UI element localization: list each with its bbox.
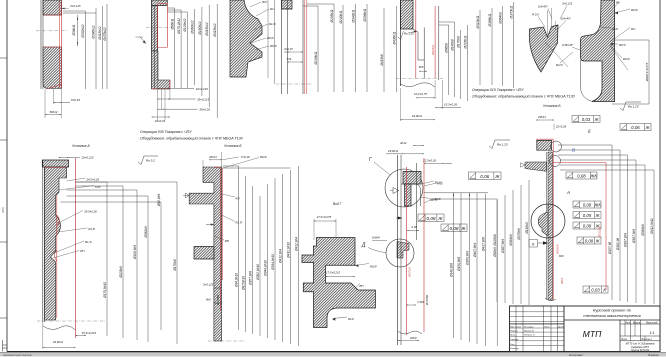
- svg-text:Курсовой проект по: Курсовой проект по: [593, 308, 632, 313]
- svg-text:Ø34,9h10: Ø34,9h10: [234, 273, 238, 288]
- T1 left edge double line: [41, 0, 43, 89]
- svg-text:R0,5¹: R0,5¹: [270, 44, 277, 48]
- svg-text:Разраб.: Разраб.: [510, 330, 518, 332]
- B5 body strip hatched: [548, 152, 553, 300]
- B1 side callouts: [53, 178, 101, 259]
- svg-text:0,06: 0,06: [631, 125, 640, 130]
- application bottom strip: [0, 352, 666, 357]
- svg-text:Утв.: Утв.: [510, 344, 515, 346]
- svg-text:Ø417,9h6: Ø417,9h6: [481, 237, 485, 252]
- svg-text:Ø415h8: Ø415h8: [380, 54, 384, 67]
- svg-text:МГТУ им. Н.Э.Баумана: МГТУ им. Н.Э.Баумана: [626, 341, 655, 345]
- B5 arrow mark: [538, 241, 549, 245]
- svg-text:Ø96h8: Ø96h8: [445, 43, 449, 54]
- B5 top flange hatched: [537, 140, 552, 150]
- B4 body edges: [398, 155, 417, 345]
- svg-text:15,3×0,215: 15,3×0,215: [82, 331, 97, 335]
- B1 left edge double line: [43, 160, 45, 322]
- svg-text:Подп.: Подп.: [544, 325, 550, 328]
- T4 bottom dim 15.3x0.26: [435, 80, 461, 109]
- svg-text:Установ Б: Установ Б: [543, 104, 561, 108]
- svg-text:30×0,26: 30×0,26: [199, 108, 210, 112]
- svg-text:Ø150,9h8: Ø150,9h8: [457, 257, 461, 272]
- svg-text:Ø187,9h9: Ø187,9h9: [623, 233, 627, 248]
- T3b top hatched sliver: [282, 0, 293, 9]
- svg-text:5h9: 5h9: [262, 0, 267, 4]
- B4 dim fan right: [424, 193, 497, 346]
- svg-text:Ø170h8: Ø170h8: [425, 295, 429, 306]
- svg-text:Ø310h11: Ø310h11: [476, 15, 480, 29]
- svg-text:R1,8¹: R1,8¹: [88, 227, 95, 231]
- svg-text:Копировал: Копировал: [569, 353, 583, 357]
- B5 upper band dims: [536, 115, 567, 130]
- svg-text:Ø415h12: Ø415h12: [98, 26, 102, 40]
- svg-text:Ø150,9: Ø150,9: [556, 244, 560, 255]
- T5 chamfer callouts left: [532, 2, 580, 67]
- svg-text:Ø170,9: Ø170,9: [408, 267, 412, 278]
- B5 tol frame top2: [620, 124, 651, 131]
- svg-text:R12¹: R12¹: [348, 317, 354, 321]
- svg-text:А: А: [566, 190, 570, 195]
- svg-text:Ø182,96: Ø182,96: [616, 238, 620, 251]
- T1 dim 3x0.125 top: [62, 4, 81, 9]
- B4 arrow mark: [396, 216, 402, 219]
- svg-text:R1¹: R1¹: [236, 197, 241, 201]
- svg-text:0,96×45°: 0,96×45°: [562, 43, 574, 47]
- T2 body lower hatched block: [152, 51, 170, 89]
- svg-text:0,06: 0,06: [480, 174, 489, 179]
- svg-text:Ø364h9: Ø364h9: [641, 224, 645, 237]
- svg-text:Ø129h12: Ø129h12: [183, 18, 187, 32]
- svg-text:0,6×45°: 0,6×45°: [561, 17, 572, 21]
- svg-text:34h11: 34h11: [209, 155, 217, 159]
- T4 dim fan right: [439, 2, 514, 101]
- B5 tol frame bottom: [583, 286, 608, 293]
- svg-text:Ø36h11: Ø36h11: [72, 24, 76, 36]
- svg-text:22×0,26: 22×0,26: [555, 125, 567, 129]
- B3 dim 17.5x0.275: [314, 215, 336, 240]
- T4 dim 6h9: [419, 65, 427, 72]
- svg-text:Ra 1,25: Ra 1,25: [628, 105, 639, 109]
- B2 datum triangle left: [183, 193, 189, 198]
- B4 callout R0.5: [421, 197, 438, 202]
- svg-text:Ø205h11: Ø205h11: [330, 9, 334, 23]
- svg-text:Ø157,96: Ø157,96: [608, 242, 612, 255]
- B4 tolerance frame 4: [469, 172, 502, 180]
- T3a radius callouts: [250, 0, 277, 50]
- T4 hatched block: [401, 0, 414, 29]
- B4 datum bowtie mark: [390, 188, 399, 194]
- svg-text:Ø240h11: Ø240h11: [339, 10, 343, 24]
- operation 030 text: [140, 130, 243, 141]
- svg-text:0,05: 0,05: [583, 213, 592, 218]
- B2 dim fan right: [222, 166, 298, 346]
- svg-text:Ra 1,25: Ra 1,25: [497, 143, 508, 147]
- B5 datum triangle: [521, 163, 525, 167]
- svg-text:R6: R6: [616, 1, 620, 5]
- svg-text:Установ Б: Установ Б: [224, 144, 242, 148]
- B5 tol frames stack: [566, 172, 597, 179]
- sheet bottom border: [7, 351, 660, 353]
- svg-text:Ra 3,2: Ra 3,2: [146, 159, 155, 163]
- svg-text:Лист: Лист: [620, 338, 627, 341]
- svg-text:Ø153,96: Ø153,96: [598, 226, 602, 238]
- svg-text:Ø357,9h8: Ø357,9h8: [248, 271, 252, 286]
- svg-text:0,08: 0,08: [426, 216, 435, 221]
- svg-text:0,03: 0,03: [582, 117, 591, 122]
- svg-text:Ø82,9h9: Ø82,9h9: [157, 194, 161, 207]
- B5 left edge line: [546, 152, 548, 300]
- svg-text:3×0,125: 3×0,125: [70, 4, 81, 8]
- svg-text:R5¹: R5¹: [225, 239, 230, 243]
- svg-text:Ø170,4h12: Ø170,4h12: [177, 18, 181, 35]
- B1 red contour: [44, 158, 75, 338]
- svg-text:Масштаб: Масштаб: [646, 321, 658, 324]
- svg-text:0,03: 0,03: [591, 287, 600, 292]
- svg-text:R0,6¹: R0,6¹: [631, 8, 638, 12]
- B1 dim fan right: [61, 182, 178, 344]
- B2 lower left wing hatched: [194, 247, 214, 260]
- svg-text:R1¹: R1¹: [270, 7, 275, 11]
- svg-text:Ø420h8: Ø420h8: [493, 234, 497, 247]
- B5 detail circles V: [550, 141, 576, 167]
- svg-text:Ø320,9h9: Ø320,9h9: [133, 245, 137, 260]
- svg-text:R1¹: R1¹: [631, 27, 636, 31]
- svg-text:Ø407,9h4: Ø407,9h4: [473, 243, 477, 258]
- svg-text:Лит.: Лит.: [624, 321, 631, 324]
- T1 dim fan right: [63, 4, 107, 89]
- svg-text:Петров П.: Петров П.: [524, 335, 535, 337]
- T4 body edges: [401, 0, 439, 86]
- svg-text:7,3h9: 7,3h9: [417, 300, 424, 304]
- svg-text:6h9: 6h9: [206, 298, 211, 302]
- svg-text:0,08: 0,08: [585, 238, 594, 243]
- svg-text:6h9: 6h9: [559, 254, 564, 258]
- svg-text:Ø360h12: Ø360h12: [191, 20, 195, 34]
- B5 left wedge hatched: [525, 162, 547, 171]
- svg-text:Операция 030 Токарная с ЧПУ: Операция 030 Токарная с ЧПУ: [140, 130, 192, 134]
- svg-text:0,08: 0,08: [449, 226, 458, 231]
- svg-text:Ø396h11: Ø396h11: [363, 8, 367, 22]
- T3b dim 4x0.15: [284, 47, 303, 53]
- B2 centerline bottom: [208, 340, 245, 342]
- B5 boxed K: [529, 240, 538, 248]
- T3b dim fan right: [303, 4, 397, 92]
- svg-text:ЖК: ЖК: [589, 173, 597, 178]
- svg-text:45°¹: 45°¹: [359, 284, 364, 288]
- svg-text:Ø432,9h10: Ø432,9h10: [286, 242, 290, 259]
- svg-text:Ø170h8: Ø170h8: [456, 36, 460, 49]
- svg-text:8,05: 8,05: [95, 185, 101, 189]
- svg-text:Ø182h9: Ø182h9: [525, 222, 529, 235]
- B4 tolerance frame 1: [418, 214, 444, 222]
- svg-text:1:1: 1:1: [650, 331, 655, 335]
- sheet right border: [659, 0, 661, 352]
- T4 bottom dim 44.9h11: [401, 114, 436, 120]
- B2 top dims: [203, 152, 267, 168]
- svg-text:Ø470h12: Ø470h12: [103, 27, 107, 41]
- B3 slot dim label: [326, 271, 356, 278]
- svg-text:Ø307,9h9: Ø307,9h9: [632, 229, 636, 244]
- svg-text:Ø8,59h10: Ø8,59h10: [241, 276, 245, 291]
- svg-text:17,5×0,275: 17,5×0,275: [317, 215, 332, 219]
- svg-text:№ докум.: № докум.: [524, 325, 534, 328]
- svg-text:24,5×0,26: 24,5×0,26: [86, 178, 100, 182]
- svg-text:15,3×0,26: 15,3×0,26: [444, 102, 457, 106]
- svg-text:R2,5¹: R2,5¹: [556, 63, 563, 67]
- title block organisation: [626, 341, 655, 352]
- svg-text:R1,5¹: R1,5¹: [236, 221, 243, 225]
- left border fold ticks: [0, 58, 7, 318]
- svg-text:10×0,215: 10×0,215: [196, 87, 209, 91]
- B4 red contour: [407, 158, 425, 335]
- svg-text:0,08: 0,08: [583, 223, 592, 228]
- svg-text:Листов 1: Листов 1: [640, 338, 652, 341]
- svg-text:Ø82h9: Ø82h9: [493, 247, 497, 258]
- svg-text:44,9h11: 44,9h11: [412, 114, 423, 118]
- B4 callout R1.5: [421, 181, 442, 185]
- B5 detail circle A: [531, 190, 570, 238]
- bottom-left corner boxes: [3, 340, 8, 352]
- svg-text:Ø199h11: Ø199h11: [314, 51, 318, 65]
- T1 red machined contour: [43, 1, 61, 89]
- svg-text:Ø170h8: Ø170h8: [216, 295, 220, 306]
- B3 hatched bracket body: [302, 238, 375, 328]
- svg-text:Ø387,9h9: Ø387,9h9: [501, 239, 505, 254]
- svg-text:4×0,15: 4×0,15: [284, 47, 293, 51]
- T5 radius callouts right: [600, 1, 638, 71]
- svg-text:6h9: 6h9: [419, 65, 424, 69]
- T4 roughness mark: [398, 31, 417, 40]
- svg-text:Ø412,9h11: Ø412,9h11: [650, 218, 654, 235]
- B1 top flange hatched: [42, 160, 68, 167]
- T3b dim 7h9: [287, 57, 304, 63]
- T2 body top hatched sliver: [152, 0, 168, 6]
- roughness Ra 3.2 sign: [138, 156, 158, 165]
- B2 side callouts: [214, 194, 242, 243]
- svg-text:10×0,215: 10×0,215: [81, 156, 94, 160]
- svg-text:Ø362h9: Ø362h9: [144, 226, 148, 239]
- svg-text:7h9: 7h9: [287, 57, 292, 61]
- B5 right dim fan: [558, 145, 654, 304]
- T4 centerline: [396, 78, 443, 80]
- svg-text:R15: R15: [438, 182, 444, 186]
- svg-text:Вид Г: Вид Г: [333, 202, 342, 206]
- svg-text:Оборудование: обрабатывающий с: Оборудование: обрабатывающий станок с ЧП…: [140, 137, 243, 141]
- svg-text:Ø412,9h4: Ø412,9h4: [294, 237, 298, 252]
- T5 thin outline lower-left: [581, 60, 593, 102]
- svg-text:Ø364h9: Ø364h9: [509, 234, 513, 247]
- title block header text: [583, 308, 641, 319]
- svg-text:29h11: 29h11: [537, 115, 546, 119]
- B4 detail circle G: [369, 157, 423, 207]
- B5 tol frame top1: [572, 116, 600, 123]
- sheet left border: [6, 0, 8, 352]
- svg-text:неизвестный чертеж: неизвестный чертеж: [3, 353, 32, 357]
- B2 red contour: [214, 168, 222, 311]
- title block staff column: [510, 325, 565, 350]
- T2 dim fan right: [167, 4, 217, 118]
- T3b body lines: [282, 0, 304, 94]
- T1 body upper hatched block: [43, 0, 62, 15]
- T2 left edge double line: [152, 0, 155, 89]
- svg-text:Ø170h8: Ø170h8: [173, 259, 177, 272]
- T2 body left hatched strip: [152, 6, 158, 52]
- T1 dim 8x0.18 bottom: [54, 89, 81, 104]
- svg-text:технологии машиностроения: технологии машиностроения: [583, 313, 641, 318]
- T3b red contour lines: [305, 0, 307, 94]
- svg-text:Ø394,9h10: Ø394,9h10: [271, 254, 275, 271]
- B4 detail circle D: [361, 239, 414, 267]
- B4 dim 0.48: [407, 225, 419, 231]
- T4 bottom dim 10.2x0.75: [401, 80, 436, 121]
- T4 red contour: [416, 0, 435, 78]
- svg-text:Иванов И.: Иванов И.: [524, 330, 535, 332]
- B1 body hatched strip: [44, 167, 66, 320]
- dim 6.6H9: [372, 236, 387, 241]
- svg-text:Ø170,9h10: Ø170,9h10: [103, 282, 107, 299]
- T3a hatched body: [230, 0, 262, 77]
- T4 break wavy line: [401, 83, 436, 87]
- svg-text:Ø396h12: Ø396h12: [92, 25, 96, 39]
- svg-text:Операция 015 Токарная с ЧПУ: Операция 015 Токарная с ЧПУ: [472, 88, 524, 92]
- svg-text:Группа МТ3-82: Группа МТ3-82: [631, 348, 650, 352]
- T5 vertical dim 208.4: [612, 40, 649, 104]
- svg-text:R0,6¹: R0,6¹: [623, 57, 630, 61]
- svg-text:Ø370h11: Ø370h11: [509, 5, 513, 19]
- svg-text:Установ А: Установ А: [72, 144, 90, 148]
- B4 break wavy line: [398, 331, 422, 334]
- svg-text:R0,6¹: R0,6¹: [434, 197, 441, 201]
- svg-text:29,6h11: 29,6h11: [387, 149, 399, 153]
- svg-text:R 0,8: R 0,8: [532, 13, 539, 17]
- B5 break wavy: [545, 298, 556, 301]
- B5 circle A hatched contents: [538, 205, 548, 236]
- svg-text:0,08: 0,08: [577, 173, 586, 178]
- roughness Ra 1.25 mid: [489, 140, 510, 149]
- T3a right extension lines: [268, 0, 275, 84]
- svg-text:Оборудование: обрабатывающий с: Оборудование: обрабатывающий станок с ЧП…: [472, 95, 575, 99]
- svg-text:0,6×45°: 0,6×45°: [538, 5, 549, 9]
- svg-text:Ø216h11: Ø216h11: [463, 35, 467, 49]
- svg-text:Изм. Лист: Изм. Лист: [510, 326, 521, 328]
- svg-text:44×0,31: 44×0,31: [155, 119, 166, 123]
- B4 tolerance frame 2: [441, 224, 467, 232]
- svg-text:7×0,18: 7×0,18: [241, 155, 250, 159]
- B2 arrow mark: [206, 223, 214, 225]
- svg-text:44,9h11: 44,9h11: [53, 340, 64, 344]
- T1 centerline: [36, 30, 68, 32]
- svg-text:Ø140,9h8: Ø140,9h8: [449, 263, 453, 278]
- T2 datum arrow: [136, 37, 147, 44]
- svg-text:28,5×0,26: 28,5×0,26: [83, 210, 97, 214]
- svg-text:R10¹: R10¹: [612, 27, 618, 31]
- svg-text:Ø415h12: Ø415h12: [213, 23, 217, 37]
- B4 bottom dims: [398, 295, 429, 341]
- B1 dim 10x0.215 top: [59, 156, 94, 160]
- B5 red contour: [536, 139, 606, 300]
- title block list row: [620, 338, 652, 341]
- svg-text:Ø203h9: Ø203h9: [119, 266, 123, 279]
- svg-text:10,2×0,75: 10,2×0,75: [414, 92, 427, 96]
- T5 left piece leader lines: [545, 8, 568, 67]
- svg-text:Формат: Формат: [648, 353, 660, 357]
- B1 dim 44.9h11: [43, 322, 76, 349]
- svg-text:17,5×0,215: 17,5×0,215: [326, 271, 341, 275]
- B4 radius callouts right: [424, 182, 443, 204]
- svg-text:Ø344,9h10: Ø344,9h10: [263, 260, 267, 277]
- B2 body flange and stem hatched: [189, 167, 221, 341]
- svg-text:Дата: Дата: [557, 326, 565, 328]
- title block lit-massa-masshtab: [624, 321, 658, 335]
- T2 red machined rectangle: [152, 4, 170, 89]
- svg-text:Масса: Масса: [633, 321, 641, 324]
- svg-text:8×0,18: 8×0,18: [71, 98, 80, 102]
- svg-text:R1,4¹: R1,4¹: [85, 240, 92, 244]
- svg-text:Ø364h9: Ø364h9: [498, 12, 502, 25]
- svg-text:Ø208,4×0,575: Ø208,4×0,575: [645, 62, 649, 82]
- B4 circle G hatched contents: [401, 172, 421, 207]
- svg-text:3h12: 3h12: [560, 277, 564, 284]
- svg-text:Ж: Ж: [437, 216, 443, 221]
- svg-text:Ø160h12: Ø160h12: [198, 21, 202, 35]
- svg-text:Т.контр.: Т.контр.: [510, 339, 519, 341]
- svg-text:6,6H9: 6,6H9: [372, 236, 380, 240]
- title block grid: [510, 306, 661, 352]
- svg-text:ØCб: ØCб: [1, 207, 5, 214]
- B3 callouts: [332, 264, 377, 322]
- T2 stacked bottom dims: [152, 48, 211, 123]
- T5 main hatched body: [581, 0, 615, 102]
- svg-text:3×0,125: 3×0,125: [562, 2, 573, 6]
- svg-text:Ø370h9: Ø370h9: [517, 228, 521, 241]
- svg-text:Н.контр.: Н.контр.: [510, 348, 520, 350]
- svg-text:Пров.: Пров.: [510, 335, 516, 337]
- B5 left dim fan: [493, 180, 529, 305]
- svg-text:Ø366h11: Ø366h11: [488, 13, 492, 27]
- svg-text:R1,6¹: R1,6¹: [269, 22, 276, 26]
- svg-text:3×0,125: 3×0,125: [203, 283, 214, 287]
- T1 dim 50h12 bottom: [45, 89, 61, 118]
- svg-text:Ø302h12: Ø302h12: [81, 24, 85, 38]
- B4 top dims: [386, 141, 452, 164]
- T2 centerline: [146, 26, 172, 28]
- svg-text:45°¹: 45°¹: [80, 249, 85, 253]
- svg-text:ЖК: ЖК: [593, 202, 601, 207]
- T5 small left hatched piece: [529, 25, 558, 72]
- B1 break wavy line: [43, 326, 76, 330]
- svg-text:35×0,215: 35×0,215: [197, 97, 210, 101]
- B1 centerline bottom: [37, 320, 105, 322]
- svg-text:Ø160,9h9: Ø160,9h9: [465, 251, 469, 266]
- T1 body lower hatched block: [43, 47, 62, 89]
- B1 dim 15.3x0.215: [76, 331, 97, 336]
- svg-text:Ж: Ж: [494, 174, 500, 179]
- B2 bottom small dims: [203, 283, 222, 306]
- svg-text:Ø412,9h4: Ø412,9h4: [278, 249, 282, 264]
- svg-text:МТП: МТП: [583, 329, 602, 339]
- svg-text:Ø86h11: Ø86h11: [171, 18, 175, 30]
- svg-text:R0,6¹: R0,6¹: [260, 155, 267, 159]
- svg-text:R0,5¹: R0,5¹: [619, 43, 626, 47]
- T5 roughness sign: [620, 102, 641, 111]
- svg-text:Ø415h12: Ø415h12: [205, 22, 209, 36]
- svg-text:Д: Д: [361, 243, 366, 249]
- B4 circle D hatched contents: [397, 242, 409, 259]
- svg-text:R0,6¹: R0,6¹: [370, 265, 377, 269]
- svg-text:Ø436h11: Ø436h11: [392, 31, 396, 45]
- svg-text:50h12: 50h12: [49, 110, 57, 114]
